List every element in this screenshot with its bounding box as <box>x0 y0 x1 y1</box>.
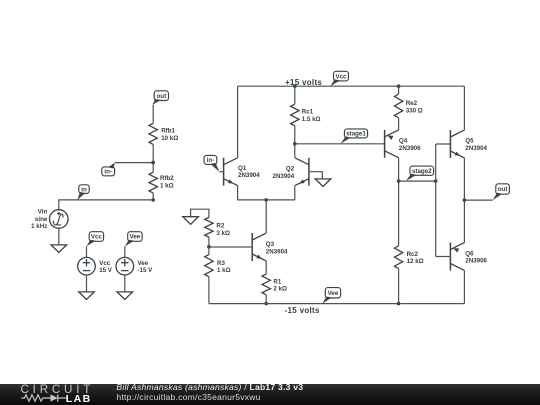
svg-text:stage2: stage2 <box>412 168 432 175</box>
svg-text:R1: R1 <box>273 278 281 285</box>
svg-text:Q6: Q6 <box>465 250 474 257</box>
svg-text:Vcc: Vcc <box>99 260 111 267</box>
svg-text:sine: sine <box>35 216 48 223</box>
svg-text:1.5 kΩ: 1.5 kΩ <box>302 116 321 123</box>
svg-text:Vcc: Vcc <box>335 73 347 80</box>
svg-text:+15 volts: +15 volts <box>285 78 322 87</box>
svg-text:out: out <box>157 93 167 100</box>
svg-text:-15 volts: -15 volts <box>285 306 320 315</box>
svg-text:Rc2: Rc2 <box>407 251 419 258</box>
svg-text:12 kΩ: 12 kΩ <box>407 258 424 265</box>
svg-text:2N3904: 2N3904 <box>465 145 487 152</box>
svg-text:Rfb1: Rfb1 <box>161 128 175 135</box>
svg-text:Q2: Q2 <box>286 166 295 173</box>
svg-text:10 kΩ: 10 kΩ <box>161 135 178 142</box>
svg-text:Re2: Re2 <box>406 100 418 107</box>
svg-text:2N3904: 2N3904 <box>238 172 260 179</box>
svg-text:Vin: Vin <box>38 209 48 216</box>
svg-text:Rc1: Rc1 <box>302 109 314 116</box>
svg-text:Q1: Q1 <box>238 165 247 172</box>
svg-text:Q3: Q3 <box>266 241 275 248</box>
svg-text:Vee: Vee <box>328 290 339 297</box>
svg-text:Q4: Q4 <box>399 138 408 145</box>
svg-text:2N3906: 2N3906 <box>465 258 487 265</box>
svg-text:2N3904: 2N3904 <box>273 173 295 180</box>
svg-text:Q5: Q5 <box>465 138 474 145</box>
svg-text:15 V: 15 V <box>99 267 113 274</box>
svg-text:in-: in- <box>207 157 215 164</box>
svg-text:R3: R3 <box>217 260 225 267</box>
svg-text:in: in <box>81 186 87 193</box>
svg-text:Rfb2: Rfb2 <box>160 175 174 182</box>
svg-text:330 Ω: 330 Ω <box>406 108 423 115</box>
svg-text:in-: in- <box>104 169 112 176</box>
svg-text:-15 V: -15 V <box>138 267 154 274</box>
svg-text:Vee: Vee <box>130 234 141 241</box>
svg-text:Vcc: Vcc <box>91 234 103 241</box>
svg-text:2 kΩ: 2 kΩ <box>273 286 287 293</box>
svg-text:1 kΩ: 1 kΩ <box>217 267 231 274</box>
svg-text:1 kΩ: 1 kΩ <box>160 183 174 190</box>
svg-text:3 kΩ: 3 kΩ <box>216 230 230 237</box>
svg-text:Vee: Vee <box>138 260 149 267</box>
svg-text:2N3904: 2N3904 <box>266 248 288 255</box>
svg-text:2N3906: 2N3906 <box>399 145 421 152</box>
svg-text:out: out <box>498 186 508 193</box>
svg-text:1 kHz: 1 kHz <box>31 223 47 230</box>
svg-text:R2: R2 <box>216 223 224 230</box>
svg-text:stage1: stage1 <box>346 131 366 138</box>
